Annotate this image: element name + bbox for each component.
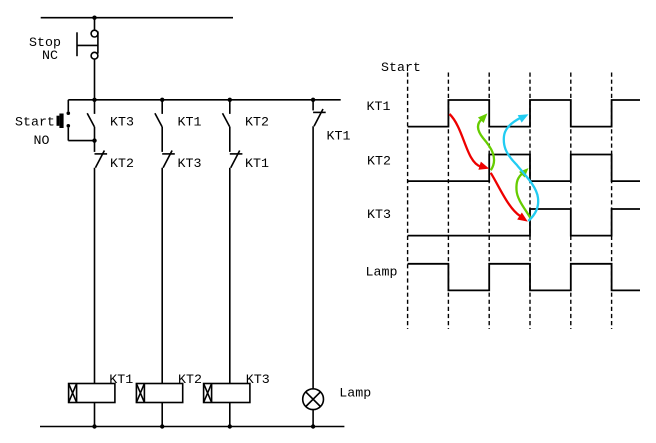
svg-text:Lamp: Lamp xyxy=(339,386,371,401)
node bottom rail branch 1 xyxy=(92,424,96,428)
coil KT2 xyxy=(136,384,182,403)
contact KT3 NC (branch 2) xyxy=(162,151,175,168)
node bottom rail branch 4 xyxy=(311,424,315,428)
pushbutton Stop NC xyxy=(77,30,98,59)
node bottom rail branch 2 xyxy=(160,424,164,428)
wire coil KT2 to bottom rail xyxy=(161,403,163,427)
contact KT2 NC (branch 1) xyxy=(95,141,108,168)
wire branch3 to coil KT3 xyxy=(229,168,231,384)
wire coil KT1 to bottom rail xyxy=(94,403,96,427)
svg-text:KT2: KT2 xyxy=(110,156,134,171)
waveform KT1 xyxy=(408,100,640,127)
gridline t6 xyxy=(611,73,613,330)
svg-text:KT3: KT3 xyxy=(246,372,270,387)
gridline t1 xyxy=(407,73,409,330)
wire branch2 to coil KT2 xyxy=(161,168,163,384)
node rail2 branch 2 xyxy=(160,98,164,102)
pushbutton Start NO xyxy=(57,100,95,141)
svg-text:KT1: KT1 xyxy=(109,372,133,387)
svg-text:KT3: KT3 xyxy=(110,115,134,130)
node bottom rail branch 3 xyxy=(228,424,232,428)
svg-text:KT2: KT2 xyxy=(245,115,269,130)
wire top rail xyxy=(41,17,233,19)
wire rail 2 xyxy=(68,99,340,101)
wire lamp to bottom rail xyxy=(312,410,314,427)
node rail2 branch 3 xyxy=(228,98,232,102)
svg-text:KT3: KT3 xyxy=(367,207,391,222)
svg-text:NO: NO xyxy=(34,133,50,148)
coil KT3 xyxy=(204,384,250,403)
wire coil KT3 to bottom rail xyxy=(229,403,231,427)
contact KT1 NO (branch 2) xyxy=(155,100,162,152)
gridline t2 xyxy=(447,73,449,330)
svg-text:KT2: KT2 xyxy=(367,154,391,169)
coil KT1 xyxy=(69,384,115,403)
svg-text:NC: NC xyxy=(42,48,58,63)
wire stop button to rail 2 xyxy=(94,59,96,100)
arrow green KT3 rise to KT2 fall xyxy=(516,165,531,219)
waveform KT2 xyxy=(408,155,640,182)
contact KT1 NC (branch 4) xyxy=(313,100,326,127)
svg-text:Start: Start xyxy=(381,60,421,75)
node junction top rail / stop branch xyxy=(92,16,96,20)
gridline t5 xyxy=(570,73,572,330)
svg-text:KT1: KT1 xyxy=(367,99,391,114)
svg-text:KT1: KT1 xyxy=(327,128,351,143)
wire branch4 to lamp xyxy=(312,126,314,388)
svg-text:KT1: KT1 xyxy=(178,115,202,130)
contact KT1 NC (branch 3) xyxy=(230,151,243,168)
wire rail to stop button xyxy=(94,18,96,31)
arrow cyan KT3 rise to KT1 rise xyxy=(504,110,538,221)
waveform Lamp xyxy=(408,264,640,291)
node start link / branch1 junction xyxy=(92,138,96,142)
svg-text:KT2: KT2 xyxy=(178,372,202,387)
node rail2 branch 4 xyxy=(311,98,315,102)
node rail2 branch 1 xyxy=(92,98,96,102)
svg-text:KT1: KT1 xyxy=(245,156,269,171)
lamp indicator xyxy=(303,389,324,410)
contact KT2 NO (branch 3) xyxy=(223,100,230,152)
svg-text:Start: Start xyxy=(15,115,55,130)
arrow green KT2 rise to KT1 fall xyxy=(478,111,494,171)
arrow red KT1 rise to KT2 rise xyxy=(450,114,491,173)
svg-text:Lamp: Lamp xyxy=(366,265,398,280)
contact KT3 NO (branch 1) xyxy=(87,100,94,141)
wire bottom rail xyxy=(40,426,344,428)
svg-text:KT3: KT3 xyxy=(178,156,202,171)
gridline t4 xyxy=(529,73,531,330)
wire branch1 to coil KT1 xyxy=(94,168,96,384)
arrow red KT2 rise to KT3 rise xyxy=(491,173,530,225)
waveform KT3 xyxy=(408,209,640,236)
gridline t3 xyxy=(488,73,490,330)
